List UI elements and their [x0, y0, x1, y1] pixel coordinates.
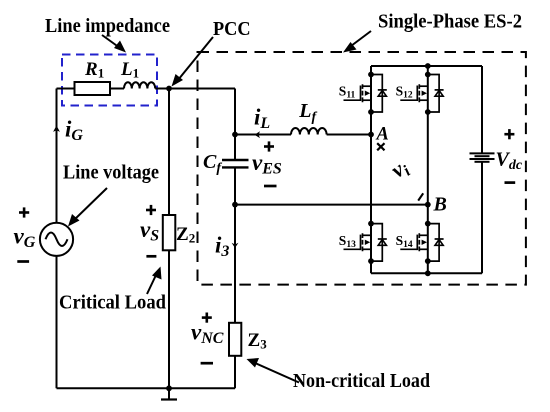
- wire: Cf leg from top wire to capacitor: [234, 89, 236, 161]
- svg-text:A: A: [376, 125, 389, 145]
- svg-text:B: B: [433, 193, 447, 215]
- label + of vNC: [202, 313, 212, 323]
- label - of vES: [264, 185, 277, 188]
- wire: Cf leg to lower wire and down: [234, 167, 236, 322]
- current arrow iL: [254, 131, 260, 138]
- wire: lower wire to node B: [235, 204, 428, 206]
- wire: Z3 to bottom rail: [234, 356, 236, 389]
- svg-text:PCC: PCC: [213, 18, 251, 40]
- ground junction dot: [166, 385, 172, 391]
- wire: left leg lower: [56, 256, 58, 388]
- mark / near B: [418, 193, 423, 200]
- arrow from ES-2 label to box: [343, 31, 371, 53]
- mark x below A: [377, 143, 384, 150]
- non-critical load Z3: [229, 323, 241, 356]
- wire: Z2 leg upper: [168, 89, 170, 216]
- node bottom rail junction dot: [425, 270, 431, 276]
- arrow from Line voltage to source: [68, 188, 107, 227]
- top rail: [371, 65, 482, 67]
- svg-text:Single-Phase ES-2: Single-Phase ES-2: [378, 11, 522, 33]
- svg-text:Line impedance: Line impedance: [45, 15, 170, 37]
- label + of vES: [264, 141, 274, 151]
- wire: Lf to node A: [327, 134, 371, 136]
- resistor R1: [75, 82, 111, 95]
- label - of vS: [146, 255, 156, 258]
- node lower junction dot: [232, 202, 238, 208]
- bottom rail: [371, 272, 482, 274]
- label + of Vdc: [504, 129, 514, 139]
- wire: iL wire to Lf: [235, 134, 291, 136]
- transistor S11: [344, 72, 387, 115]
- svg-text:Critical Load: Critical Load: [59, 292, 166, 314]
- critical load Z2: [163, 215, 176, 250]
- node A dot: [368, 132, 374, 138]
- sine wave inside vG: [46, 233, 68, 247]
- svg-text:Non-critical Load: Non-critical Load: [293, 370, 430, 392]
- transistor S12: [400, 72, 443, 115]
- svg-text:Line voltage: Line voltage: [63, 162, 159, 184]
- battery Vdc: [470, 153, 495, 161]
- inductor L1: [124, 82, 155, 88]
- arrow from Non-critical Load to Z3: [247, 358, 300, 383]
- Vdc leg lower: [481, 162, 483, 273]
- Single-Phase ES-2 dashed box: [198, 52, 526, 285]
- node iL junction dot: [232, 132, 238, 138]
- wire: top wire from left corner to R1: [57, 88, 75, 90]
- node PCC junction dot: [166, 86, 172, 92]
- capacitor Cf: [222, 160, 249, 167]
- transistor S14: [400, 221, 443, 264]
- transistor S13: [344, 221, 387, 264]
- wire: left leg upper (to source): [56, 89, 58, 223]
- Vdc leg upper: [481, 66, 483, 153]
- label - of vG: [17, 260, 29, 263]
- inductor Lf: [291, 128, 327, 135]
- line impedance dashed box (blue): [62, 55, 157, 106]
- source vG circle: [40, 223, 73, 256]
- arrow from PCC to junction: [172, 37, 214, 87]
- current arrow iG: [53, 125, 60, 131]
- wire: L1 to Cf corner: [155, 88, 235, 90]
- label vi (rotated): [386, 154, 414, 185]
- wire: bottom rail: [57, 387, 236, 389]
- wire: Z2 leg lower: [168, 250, 170, 388]
- node top rail junction dot: [425, 63, 431, 69]
- H-bridge right leg: [427, 66, 429, 273]
- arrow from Line impedance to box: [102, 35, 126, 53]
- node B dot: [425, 202, 431, 208]
- wire: between R1 and L1: [110, 88, 124, 90]
- H-bridge left leg: [370, 66, 372, 273]
- label + of vG: [19, 207, 29, 217]
- label - of Vdc: [505, 181, 516, 184]
- current arrow i3: [232, 243, 239, 248]
- label + of vS: [146, 205, 156, 215]
- label - of vNC: [201, 362, 213, 365]
- ground symbol: [161, 388, 177, 399]
- arrow from Critical Load to Z2: [147, 267, 162, 295]
